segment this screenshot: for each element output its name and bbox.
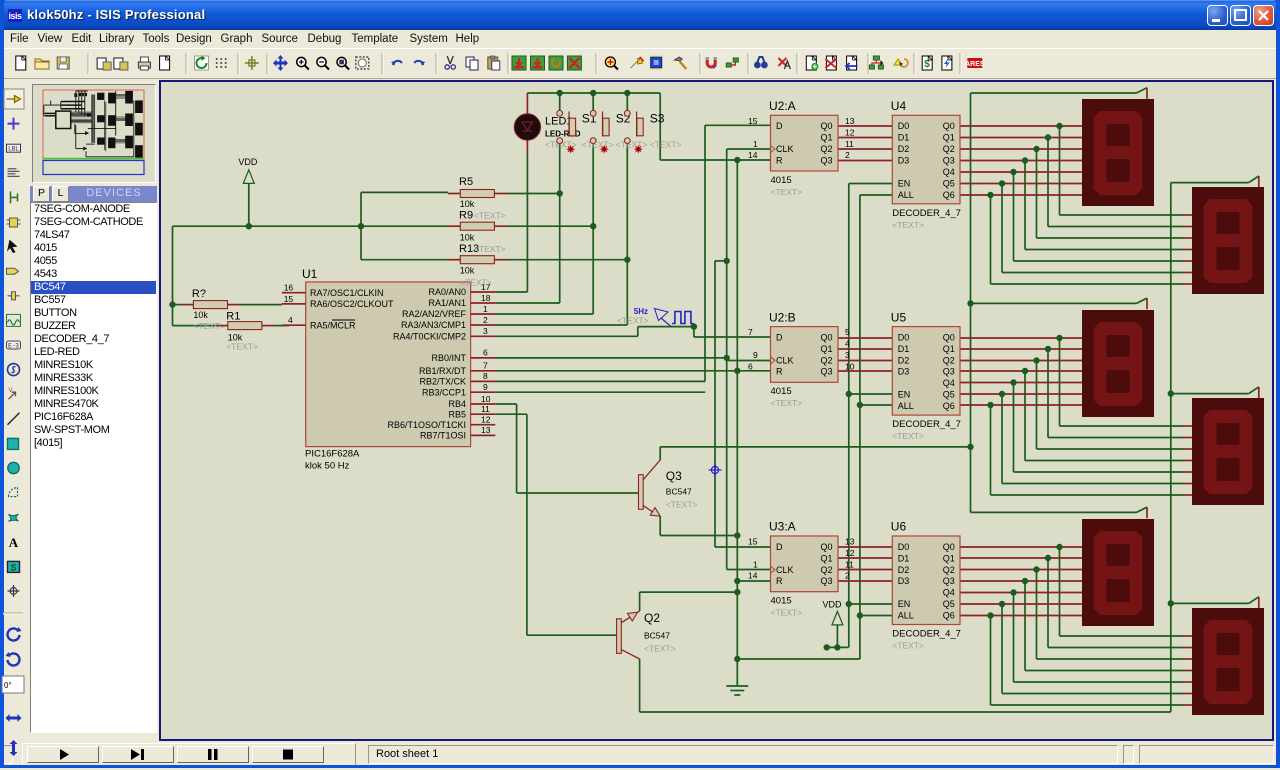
svg-text:5: 5 — [845, 327, 850, 337]
svg-text:<TEXT>: <TEXT> — [771, 398, 803, 408]
svg-text:Q2: Q2 — [943, 565, 955, 575]
svg-text:Q0: Q0 — [943, 542, 955, 552]
svg-text:EN: EN — [898, 178, 911, 188]
svg-text:R: R — [776, 576, 783, 586]
svg-text:<TEXT>: <TEXT> — [771, 187, 803, 197]
svg-text:D2: D2 — [898, 356, 910, 366]
svg-text:Q2: Q2 — [820, 565, 832, 575]
svg-text:R: R — [776, 155, 783, 165]
svg-text:RB1/RX/DT: RB1/RX/DT — [419, 366, 467, 376]
svg-text:DECODER_4_7: DECODER_4_7 — [892, 419, 961, 430]
svg-text:isis: isis — [8, 11, 22, 21]
svg-text:Q1: Q1 — [943, 344, 955, 354]
svg-text:R9: R9 — [459, 210, 473, 222]
svg-text:$: $ — [924, 59, 930, 70]
svg-text:D3: D3 — [898, 367, 910, 377]
svg-text:D1: D1 — [898, 553, 910, 563]
svg-text:4015: 4015 — [771, 386, 792, 397]
svg-text:Q1: Q1 — [943, 553, 955, 563]
svg-text:12: 12 — [481, 415, 491, 425]
svg-text:Q3: Q3 — [820, 155, 832, 165]
svg-text:1: 1 — [483, 304, 488, 314]
svg-text:9: 9 — [483, 382, 488, 392]
svg-text:Q3: Q3 — [820, 367, 832, 377]
svg-text:R5: R5 — [459, 176, 473, 188]
svg-text:Q6: Q6 — [943, 190, 955, 200]
svg-text:15: 15 — [748, 537, 758, 547]
svg-text:ARES: ARES — [965, 61, 985, 68]
svg-text:Q3: Q3 — [666, 469, 682, 483]
svg-text:EN: EN — [898, 390, 911, 400]
svg-text:RA2/AN2/VREF: RA2/AN2/VREF — [402, 309, 467, 319]
svg-text:RB0/INT: RB0/INT — [431, 353, 466, 363]
svg-text:4015: 4015 — [771, 596, 792, 607]
svg-text:D2: D2 — [898, 565, 910, 575]
svg-text:2: 2 — [845, 571, 850, 581]
svg-text:Q5: Q5 — [943, 390, 955, 400]
svg-text:CLK: CLK — [776, 565, 794, 575]
svg-text:CLK: CLK — [776, 144, 794, 154]
svg-text:ALL: ALL — [898, 401, 914, 411]
svg-text:7: 7 — [483, 361, 488, 371]
svg-text:Q2: Q2 — [820, 356, 832, 366]
svg-text:BC547: BC547 — [644, 631, 670, 641]
svg-text:Q4: Q4 — [943, 588, 955, 598]
svg-text:DECODER_4_7: DECODER_4_7 — [892, 629, 961, 640]
svg-text:D1: D1 — [898, 133, 910, 143]
svg-text:Q6: Q6 — [943, 611, 955, 621]
svg-text:Q4: Q4 — [943, 167, 955, 177]
svg-text:Q0: Q0 — [943, 333, 955, 343]
svg-text:S3: S3 — [650, 112, 665, 126]
svg-text:10k: 10k — [460, 233, 475, 243]
svg-text:Q2: Q2 — [644, 611, 660, 625]
svg-text:11: 11 — [845, 139, 854, 149]
svg-text:12: 12 — [845, 127, 855, 137]
svg-text:14: 14 — [748, 571, 758, 581]
svg-text:RA1/AN1: RA1/AN1 — [428, 298, 466, 308]
svg-text:RB6/T1OSO/T1CKI: RB6/T1OSO/T1CKI — [387, 420, 466, 430]
svg-text:RA4/T0CKI/CMP2: RA4/T0CKI/CMP2 — [393, 332, 466, 342]
svg-text:<TEXT>: <TEXT> — [644, 644, 676, 654]
svg-text:Q0: Q0 — [820, 121, 832, 131]
svg-text:D3: D3 — [898, 576, 910, 586]
svg-text:<TEXT>: <TEXT> — [474, 244, 506, 254]
svg-text:D0: D0 — [898, 121, 910, 131]
svg-text:Q4: Q4 — [943, 378, 955, 388]
svg-text:12: 12 — [845, 548, 855, 558]
svg-text:Q3: Q3 — [943, 576, 955, 586]
svg-text:RB3/CCP1: RB3/CCP1 — [422, 387, 466, 397]
svg-text:RA6/OSC2/CLKOUT: RA6/OSC2/CLKOUT — [310, 299, 394, 309]
svg-text:7: 7 — [748, 327, 753, 337]
svg-text:D1: D1 — [898, 344, 910, 354]
svg-text:U6: U6 — [891, 520, 907, 534]
svg-text:2: 2 — [483, 315, 488, 325]
svg-text:13: 13 — [845, 537, 855, 547]
svg-text:<TEXT>: <TEXT> — [617, 316, 649, 326]
svg-text:U2:B: U2:B — [769, 310, 796, 324]
svg-text:14: 14 — [748, 150, 758, 160]
svg-text:U1: U1 — [302, 267, 318, 281]
svg-text:2: 2 — [845, 150, 850, 160]
svg-text:<TEXT>: <TEXT> — [460, 278, 492, 288]
svg-text:RA7/OSC1/CLKIN: RA7/OSC1/CLKIN — [310, 288, 384, 298]
svg-text:3: 3 — [845, 350, 850, 360]
svg-text:<TEXT>: <TEXT> — [474, 211, 506, 221]
svg-text:<TEXT>: <TEXT> — [771, 608, 803, 618]
svg-text:11: 11 — [845, 560, 854, 570]
svg-text:0°: 0° — [4, 681, 12, 690]
svg-text:Q0: Q0 — [820, 542, 832, 552]
svg-text:<TEXT>: <TEXT> — [226, 342, 258, 352]
svg-text:RB5: RB5 — [448, 409, 466, 419]
svg-text:13: 13 — [845, 116, 855, 126]
svg-text:BC547: BC547 — [666, 487, 692, 497]
svg-text:Q0: Q0 — [943, 121, 955, 131]
svg-text:10: 10 — [481, 394, 491, 404]
svg-text:<TEXT>: <TEXT> — [892, 220, 924, 230]
svg-text:R: R — [776, 367, 783, 377]
svg-text:10: 10 — [845, 361, 855, 371]
svg-text:10k: 10k — [193, 310, 208, 320]
svg-text:18: 18 — [481, 293, 491, 303]
svg-text:Q3: Q3 — [943, 155, 955, 165]
svg-text:RA0/AN0: RA0/AN0 — [428, 287, 466, 297]
svg-text:CLK: CLK — [776, 356, 794, 366]
svg-text:S: S — [10, 562, 16, 572]
svg-text:6: 6 — [748, 361, 753, 371]
svg-text:E-3: E-3 — [8, 343, 19, 350]
svg-text:4015: 4015 — [771, 175, 792, 186]
svg-text:11: 11 — [481, 404, 490, 414]
svg-text:R?: R? — [192, 288, 206, 300]
svg-text:<TEXT>: <TEXT> — [650, 140, 682, 150]
svg-text:RA5/MCLR: RA5/MCLR — [310, 320, 356, 330]
svg-text:<TEXT>: <TEXT> — [892, 641, 924, 651]
svg-text:klok 50 Hz: klok 50 Hz — [305, 461, 350, 472]
svg-text:A: A — [9, 535, 19, 550]
svg-text:RA3/AN3/CMP1: RA3/AN3/CMP1 — [401, 320, 466, 330]
svg-text:3: 3 — [483, 326, 488, 336]
svg-text:4: 4 — [845, 339, 850, 349]
svg-text:D2: D2 — [898, 144, 910, 154]
svg-text:DECODER_4_7: DECODER_4_7 — [892, 208, 961, 219]
svg-text:ALL: ALL — [898, 611, 914, 621]
svg-text:D: D — [776, 542, 783, 552]
svg-text:1: 1 — [753, 139, 758, 149]
svg-text:RB2/TX/CK: RB2/TX/CK — [419, 377, 466, 387]
svg-text:6: 6 — [483, 348, 488, 358]
svg-text:EN: EN — [898, 599, 911, 609]
svg-text:Q1: Q1 — [820, 553, 832, 563]
svg-text:8: 8 — [483, 371, 488, 381]
svg-text:ALL: ALL — [898, 190, 914, 200]
svg-text:VDD: VDD — [823, 600, 843, 610]
svg-text:D3: D3 — [898, 155, 910, 165]
svg-text:4: 4 — [288, 315, 293, 325]
svg-text:D: D — [776, 333, 783, 343]
svg-text:<TEXT>: <TEXT> — [582, 140, 614, 150]
svg-text:Q3: Q3 — [820, 576, 832, 586]
svg-text:Q1: Q1 — [820, 344, 832, 354]
svg-text:Q6: Q6 — [943, 401, 955, 411]
svg-text:LBL: LBL — [8, 146, 19, 153]
svg-text:U3:A: U3:A — [769, 520, 796, 534]
svg-text:15: 15 — [284, 294, 294, 304]
svg-text:<TEXT>: <TEXT> — [666, 500, 698, 510]
svg-text:1: 1 — [753, 560, 758, 570]
svg-text:9: 9 — [753, 350, 758, 360]
svg-text:Q2: Q2 — [943, 144, 955, 154]
svg-text:U4: U4 — [891, 99, 907, 113]
svg-text:15: 15 — [748, 116, 758, 126]
svg-text:RB4: RB4 — [448, 399, 466, 409]
svg-text:Q1: Q1 — [820, 133, 832, 143]
svg-text:R1: R1 — [226, 311, 240, 323]
svg-text:PIC16F628A: PIC16F628A — [305, 449, 360, 460]
svg-text:D0: D0 — [898, 542, 910, 552]
svg-text:<TEXT>: <TEXT> — [892, 431, 924, 441]
svg-text:13: 13 — [481, 425, 491, 435]
svg-text:<TEXT>: <TEXT> — [616, 140, 648, 150]
svg-text:16: 16 — [284, 283, 294, 293]
svg-text:Q5: Q5 — [943, 599, 955, 609]
svg-text:U5: U5 — [891, 310, 907, 324]
svg-text:D0: D0 — [898, 333, 910, 343]
svg-text:D: D — [776, 121, 783, 131]
svg-text:Q3: Q3 — [943, 367, 955, 377]
svg-text:V: V — [9, 388, 13, 394]
svg-text:U2:A: U2:A — [769, 99, 796, 113]
svg-text:Q0: Q0 — [820, 333, 832, 343]
svg-text:Q5: Q5 — [943, 178, 955, 188]
svg-text:Q2: Q2 — [943, 356, 955, 366]
svg-text:RB7/T1OSI: RB7/T1OSI — [420, 431, 466, 441]
svg-text:10k: 10k — [460, 266, 475, 276]
svg-text:10k: 10k — [460, 199, 475, 209]
svg-text:VDD: VDD — [238, 157, 258, 167]
svg-text:Q2: Q2 — [820, 144, 832, 154]
svg-text:Q1: Q1 — [943, 133, 955, 143]
